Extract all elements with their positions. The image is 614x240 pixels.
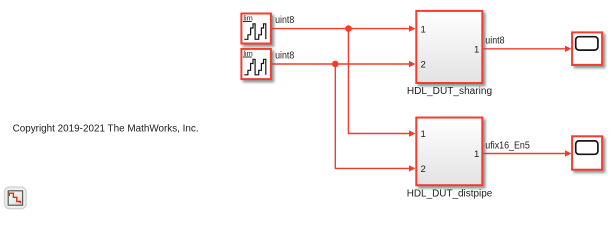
wire from HDL_DUT_sharing output to Scope1 (483, 46, 571, 52)
svg-text:1: 1 (421, 129, 426, 140)
junction node on Counter1 signal (345, 25, 352, 32)
svg-text:HDL_DUT_sharing: HDL_DUT_sharing (407, 86, 492, 97)
svg-text:uint8: uint8 (275, 51, 295, 62)
subsystem HDL_DUT_distpipe (416, 118, 482, 186)
svg-text:ufix16_En5: ufix16_En5 (485, 141, 530, 152)
svg-text:Copyright 2019-2021 The MathWo: Copyright 2019-2021 The MathWorks, Inc. (13, 123, 199, 134)
wire from Counter2 to HDL_DUT_sharing port 2 (272, 61, 416, 67)
badge icon bottom-left (5, 187, 27, 209)
svg-text:1: 1 (474, 149, 479, 160)
junction node on Counter2 signal (332, 61, 339, 68)
svg-text:1: 1 (474, 45, 479, 56)
wire from HDL_DUT_distpipe output to Scope2 (483, 150, 571, 156)
svg-text:uint8: uint8 (485, 36, 505, 47)
source block Counter Limited 2 (241, 49, 271, 79)
wire from Counter1 to HDL_DUT_sharing port 1 (272, 25, 416, 31)
svg-text:HDL_DUT_distpipe: HDL_DUT_distpipe (407, 189, 493, 200)
svg-text:2: 2 (421, 60, 426, 71)
source block Counter Limited 1 (241, 13, 271, 43)
svg-text:uint8: uint8 (275, 15, 295, 26)
scope block Scope1 (572, 32, 602, 65)
subsystem HDL_DUT_sharing (416, 11, 482, 83)
svg-text:2: 2 (421, 164, 426, 175)
scope block Scope2 (572, 136, 602, 169)
svg-text:1: 1 (421, 24, 426, 35)
wire branch from junction down to HDL_DUT_distpipe port 1 (348, 29, 415, 137)
wire branch from junction down to HDL_DUT_distpipe port 2 (335, 64, 415, 172)
